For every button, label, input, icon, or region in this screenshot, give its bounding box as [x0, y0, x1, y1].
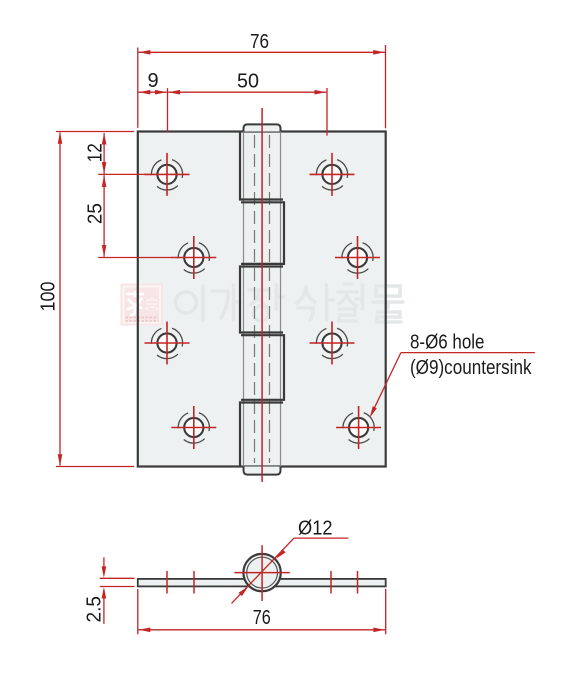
hole 4 [335, 236, 380, 279]
dim 2.5 extensions [100, 577, 135, 579]
Ø12 leader [232, 538, 295, 603]
hole 8 [336, 406, 381, 449]
hole 6 [310, 322, 355, 365]
hole 1 [145, 153, 190, 196]
dim 100 extension lines [56, 131, 134, 133]
bar (leaf edge view) [138, 579, 386, 587]
hole 2 [310, 153, 355, 196]
callout leader 8-Ø6 [401, 352, 535, 354]
svg-text:76: 76 [250, 31, 269, 53]
dim 9/50 extension lines [167, 88, 169, 132]
svg-text:9: 9 [147, 70, 158, 92]
dim 25 line [103, 175, 105, 257]
dim 76 top extension lines [137, 48, 139, 128]
barrel red centerline [261, 108, 263, 482]
svg-text:12: 12 [84, 143, 106, 162]
dim 76 bottom extensions [137, 589, 139, 634]
barrel side thin lines [243, 132, 245, 467]
hinge barrel fill strip [244, 124, 281, 474]
svg-text:8-Ø6 hole: 8-Ø6 hole [410, 331, 485, 353]
svg-text:Ø12: Ø12 [298, 518, 333, 540]
plate outline (top view) [138, 132, 386, 467]
dim 2.5 lines+arrows [103, 557, 105, 574]
knuckle K4 right leaf [241, 335, 284, 400]
dim 50 line [168, 91, 326, 93]
knuckle K2 right leaf [241, 202, 284, 264]
svg-text:25: 25 [84, 203, 106, 224]
hole 5 [145, 322, 190, 365]
knuckle K5 left leaf [240, 403, 283, 467]
watermark korean text 이가장식철물 [176, 284, 403, 322]
hole 3 [171, 236, 216, 279]
dim 76 top line [139, 51, 386, 53]
red ticks at hole positions [166, 571, 168, 594]
barrel bottom cap [244, 467, 281, 475]
watermark logo stamp [121, 284, 164, 326]
circle crosshair [234, 572, 289, 574]
knuckle K1 left leaf [240, 132, 283, 200]
hidden pin dashed lines [254, 135, 256, 463]
dim 100 line [59, 133, 61, 466]
barrel top cap [244, 124, 281, 131]
barrel circle (end view) [243, 554, 280, 591]
svg-text:2.5: 2.5 [84, 596, 106, 623]
dim 12 line [103, 133, 105, 174]
dim 76 bottom line [139, 629, 386, 631]
svg-text:(Ø9)countersink: (Ø9)countersink [410, 357, 532, 379]
plate border [138, 132, 386, 467]
hole 7 [171, 406, 216, 449]
svg-text:50: 50 [237, 71, 259, 93]
knuckle K3 left leaf [240, 267, 283, 333]
dim 9 line [139, 91, 167, 93]
dim 12/25 extension lines [98, 173, 146, 175]
svg-text:76: 76 [253, 607, 271, 629]
svg-text:100: 100 [37, 282, 59, 312]
